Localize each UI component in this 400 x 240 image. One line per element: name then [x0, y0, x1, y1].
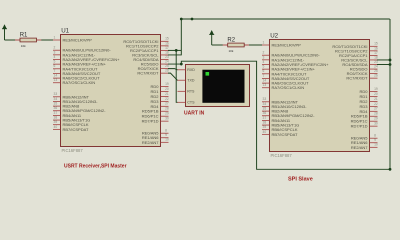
svg-text:6: 6	[263, 69, 265, 73]
svg-text:9: 9	[165, 133, 167, 137]
svg-text:8: 8	[165, 129, 167, 133]
svg-text:RA7/OSC1/CLKIN: RA7/OSC1/CLKIN	[272, 85, 305, 90]
svg-text:23: 23	[374, 60, 378, 64]
svg-text:RC7/RX/DT: RC7/RX/DT	[137, 71, 159, 76]
svg-text:3: 3	[54, 50, 56, 54]
svg-text:U1: U1	[61, 28, 69, 35]
svg-text:13: 13	[54, 78, 58, 82]
svg-text:RTS: RTS	[187, 90, 195, 94]
svg-text:27: 27	[165, 102, 169, 106]
svg-text:15: 15	[165, 37, 169, 41]
svg-text:25: 25	[165, 64, 169, 68]
svg-text:RE3/MCLR/VPP: RE3/MCLR/VPP	[63, 37, 93, 42]
svg-text:10: 10	[165, 138, 169, 142]
svg-text:21: 21	[165, 92, 169, 96]
svg-text:22: 22	[165, 97, 169, 101]
svg-text:16: 16	[165, 41, 169, 45]
svg-text:13: 13	[263, 83, 267, 87]
svg-text:23: 23	[165, 55, 169, 59]
svg-text:7: 7	[54, 69, 56, 73]
svg-text:28: 28	[374, 112, 378, 116]
svg-text:3: 3	[263, 55, 265, 59]
svg-text:RE2/AN7: RE2/AN7	[351, 145, 368, 150]
svg-text:USRT Receiver,SPI Master: USRT Receiver,SPI Master	[64, 164, 127, 170]
svg-text:PIC16F887: PIC16F887	[271, 153, 293, 158]
svg-text:17: 17	[374, 51, 378, 55]
svg-text:37: 37	[54, 111, 58, 115]
svg-text:R2: R2	[227, 37, 235, 43]
svg-text:15: 15	[374, 42, 378, 46]
svg-text:37: 37	[263, 116, 267, 120]
svg-text:21: 21	[374, 97, 378, 101]
svg-text:10k: 10k	[229, 49, 234, 53]
svg-text:RC7/RX/DT: RC7/RX/DT	[346, 76, 368, 81]
svg-text:28: 28	[165, 107, 169, 111]
svg-text:5: 5	[263, 65, 265, 69]
svg-text:PIC16F887: PIC16F887	[62, 148, 84, 153]
svg-text:TXD: TXD	[187, 79, 195, 83]
svg-text:RB7/ICSPDAT: RB7/ICSPDAT	[63, 127, 89, 132]
svg-text:26: 26	[374, 74, 378, 78]
svg-text:U2: U2	[270, 33, 278, 40]
svg-text:CTS: CTS	[187, 101, 195, 105]
svg-text:40: 40	[263, 130, 267, 134]
svg-text:9: 9	[374, 138, 376, 142]
svg-text:RB7/ICSPDAT: RB7/ICSPDAT	[272, 132, 298, 137]
svg-text:5: 5	[54, 60, 56, 64]
svg-text:RA7/OSC1/CLKIN: RA7/OSC1/CLKIN	[63, 80, 96, 85]
svg-text:36: 36	[263, 111, 267, 115]
svg-text:1: 1	[263, 40, 265, 44]
svg-text:18: 18	[374, 55, 378, 59]
svg-text:18: 18	[165, 50, 169, 54]
svg-text:29: 29	[374, 117, 378, 121]
svg-text:20: 20	[165, 87, 169, 91]
svg-text:39: 39	[54, 120, 58, 124]
svg-text:33: 33	[54, 92, 58, 96]
svg-text:4: 4	[54, 55, 56, 59]
svg-text:19: 19	[374, 87, 378, 91]
svg-text:40: 40	[54, 125, 58, 129]
svg-text:10: 10	[374, 143, 378, 147]
svg-text:19: 19	[165, 82, 169, 86]
svg-text:26: 26	[165, 69, 169, 73]
svg-text:36: 36	[54, 106, 58, 110]
svg-text:RE2/AN7: RE2/AN7	[142, 140, 159, 145]
svg-text:6: 6	[54, 64, 56, 68]
svg-text:10k: 10k	[21, 44, 26, 48]
svg-text:1: 1	[54, 35, 56, 39]
svg-text:24: 24	[165, 59, 169, 63]
svg-text:33: 33	[263, 97, 267, 101]
svg-text:39: 39	[263, 125, 267, 129]
svg-text:29: 29	[165, 112, 169, 116]
svg-text:RE3/MCLR/VPP: RE3/MCLR/VPP	[272, 42, 302, 47]
svg-text:38: 38	[54, 115, 58, 119]
svg-text:34: 34	[54, 97, 58, 101]
svg-text:24: 24	[374, 64, 378, 68]
svg-text:8: 8	[374, 134, 376, 138]
svg-text:16: 16	[374, 46, 378, 50]
svg-text:25: 25	[374, 69, 378, 73]
svg-text:R1: R1	[20, 32, 28, 38]
svg-text:38: 38	[263, 120, 267, 124]
svg-text:30: 30	[165, 117, 169, 121]
svg-text:RD7/P1D: RD7/P1D	[351, 124, 368, 129]
svg-text:UART IN: UART IN	[184, 111, 205, 117]
svg-text:17: 17	[165, 46, 169, 50]
svg-text:14: 14	[263, 79, 267, 83]
svg-text:7: 7	[263, 74, 265, 78]
svg-text:20: 20	[374, 92, 378, 96]
svg-text:30: 30	[374, 122, 378, 126]
svg-text:4: 4	[263, 60, 265, 64]
svg-text:RD7/P1D: RD7/P1D	[142, 119, 159, 124]
svg-text:14: 14	[54, 74, 58, 78]
svg-text:34: 34	[263, 102, 267, 106]
svg-text:2: 2	[263, 51, 265, 55]
svg-text:22: 22	[374, 102, 378, 106]
svg-text:2: 2	[54, 46, 56, 50]
svg-text:35: 35	[263, 107, 267, 111]
svg-text:35: 35	[54, 102, 58, 106]
svg-text:RXD: RXD	[187, 68, 195, 72]
svg-text:27: 27	[374, 107, 378, 111]
svg-text:SPI Slave: SPI Slave	[288, 177, 313, 183]
